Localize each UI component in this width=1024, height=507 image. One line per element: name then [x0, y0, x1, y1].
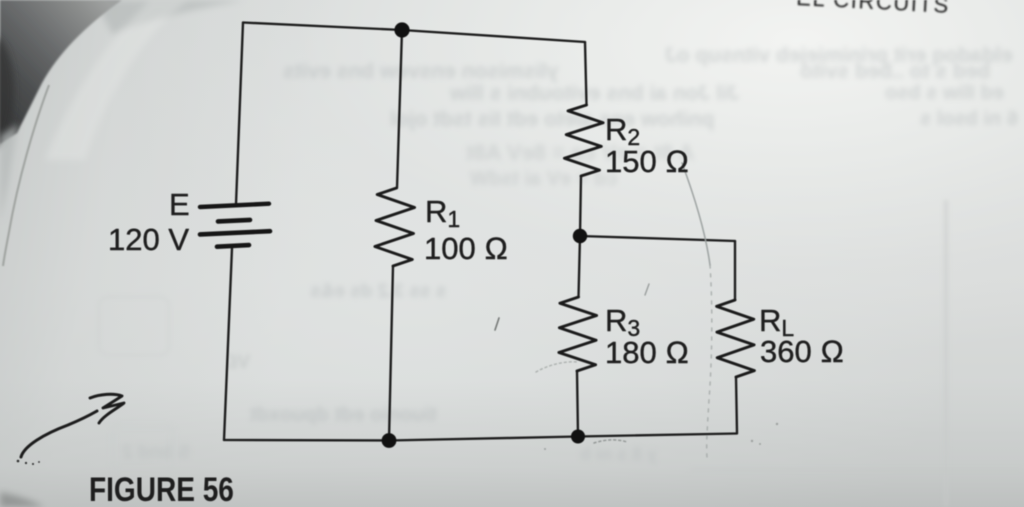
wire node B to R3: [579, 236, 581, 297]
ghost figure box 2: [112, 425, 174, 471]
wire RL top lead: [734, 241, 736, 300]
stray tick mark 2: [645, 284, 649, 295]
wire R2 top lead: [585, 42, 587, 105]
battery E plates: [200, 204, 270, 247]
dark corner core: [0, 36, 14, 148]
ghost text row 1: [665, 44, 1013, 68]
svg-text:150 Ω: 150 Ω: [605, 144, 689, 179]
ghost pencil row 8: [466, 140, 694, 166]
pen dotted dashes near node D: [594, 440, 627, 443]
node D (bottom R3 junction): [571, 430, 585, 444]
wire R2 to node B: [580, 176, 581, 236]
page edge line: [3, 85, 49, 266]
paper highlight along page curl: [45, 0, 188, 160]
light page-under wedge: [0, 124, 18, 222]
arrow ink dots: [17, 460, 40, 465]
ghost text row 12: [122, 442, 191, 464]
ghost text row 13: [580, 444, 657, 465]
ghost figure box 1: [98, 296, 170, 356]
ghost text row 11: [250, 404, 437, 427]
svg-text:120 V: 120 V: [108, 222, 189, 257]
ghost text row 10: [310, 281, 446, 303]
ghost text row 5: [885, 82, 1004, 105]
wire R3 bottom lead: [577, 371, 578, 436]
resistor R3: [559, 297, 597, 371]
wire top: battery to R1 node to R2 corner: [243, 23, 585, 43]
resistor R1: [375, 188, 415, 266]
svg-text:E: E: [169, 187, 190, 222]
ghost text row 7: [920, 108, 1018, 131]
resistor R2: [564, 105, 603, 176]
ghost text row 3: [283, 60, 558, 84]
node C (bottom R1 junction): [382, 433, 397, 448]
wire node B to RL branch: [580, 236, 735, 241]
bottom-left corner smudge: [0, 492, 44, 507]
node A (top junction): [394, 22, 409, 37]
wire bottom rail: [224, 434, 737, 441]
wire battery top lead: [236, 23, 243, 205]
ghost mark: [210, 352, 250, 372]
ghost text row 4: [450, 82, 739, 106]
pen dotted curve left of R3: [536, 362, 578, 372]
resistor RL: [717, 300, 755, 377]
pen stray curve near R2/R3: [682, 163, 710, 265]
pen specks: [544, 423, 778, 450]
svg-text:FIGURE 56: FIGURE 56: [89, 470, 234, 507]
ghost pencil row 9: [470, 168, 617, 191]
wire R1 bottom lead: [389, 266, 393, 440]
svg-text:180 Ω: 180 Ω: [605, 335, 689, 370]
wire battery bottom lead: [224, 248, 232, 440]
paper crease horizontal: [690, 468, 1024, 471]
node B (R2/R3/RL junction): [573, 229, 587, 243]
paper crease vertical: [944, 200, 948, 507]
svg-text:360 Ω: 360 Ω: [760, 334, 844, 369]
handwritten arrow: [21, 394, 124, 457]
wire R1 top lead: [397, 30, 402, 188]
photo corner dust band along top: [95, 0, 245, 34]
ghost text row 2: [800, 60, 990, 84]
dark background wedge (photo corner): [0, 0, 122, 144]
svg-text:EL CIRCUITS: EL CIRCUITS: [796, 0, 951, 18]
svg-text:R1: R1: [425, 194, 460, 232]
ghost text row 6: [390, 108, 714, 132]
wire RL bottom lead: [736, 377, 737, 433]
stray tick mark 1: [495, 318, 499, 330]
svg-text:100 Ω: 100 Ω: [424, 231, 508, 266]
pen stray curve lower dotted part: [707, 265, 712, 457]
